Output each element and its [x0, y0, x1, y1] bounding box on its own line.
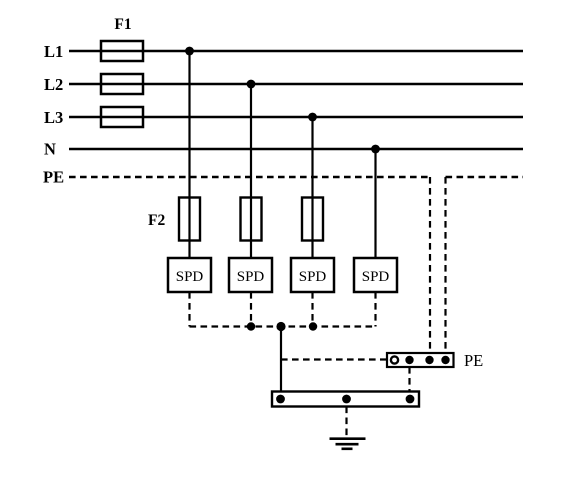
svg-text:SPD: SPD: [299, 269, 327, 285]
svg-text:F2: F2: [148, 212, 165, 229]
wire PE left segment: [69, 176, 430, 178]
wire PE terminal block to bonding bar (dashed): [408, 367, 410, 392]
ground (earth electrode symbol): [330, 439, 366, 449]
wire L1: [69, 50, 523, 52]
wire from L2 tap to fuse F2b: [250, 84, 252, 198]
wire from L1 tap to fuse F2a: [188, 51, 190, 198]
fuse F2a (L1 branch): [179, 198, 200, 241]
SPD1 (surge protective device, L1): [168, 258, 211, 292]
fuse F1 pole on L3: [101, 107, 143, 127]
wire bonding bar to earth (dashed): [345, 407, 347, 438]
wire PE left drop to PE terminal block: [429, 177, 431, 353]
wire SPD3 to earth bus (dashed): [311, 292, 313, 327]
svg-text:PE: PE: [464, 351, 483, 370]
SPD3 (surge protective device, L3): [291, 258, 334, 292]
svg-text:F1: F1: [114, 16, 131, 33]
svg-text:L3: L3: [44, 108, 63, 127]
wire PE right segment: [446, 176, 524, 178]
junction dot on L2: [247, 80, 256, 89]
fuse F2b (L2 branch): [241, 198, 262, 241]
svg-text:SPD: SPD: [237, 269, 265, 285]
SPD4 (surge protective device, N): [354, 258, 397, 292]
fuse F1 pole on L1: [101, 41, 143, 61]
junction dot on earth bus (SPD2): [247, 322, 255, 330]
junction dot on L1: [185, 47, 194, 56]
earth bus wire (dashed): [190, 325, 376, 327]
PE terminal block: [387, 353, 454, 367]
SPD2 (surge protective device, L2): [229, 258, 272, 292]
wire PE right drop to PE terminal block: [444, 177, 446, 353]
svg-text:SPD: SPD: [176, 269, 204, 285]
wire fuse F2b to SPD2: [250, 241, 252, 259]
svg-text:SPD: SPD: [362, 269, 390, 285]
svg-text:N: N: [44, 140, 56, 159]
wire SPD4 to earth bus (dashed): [374, 292, 376, 327]
svg-text:PE: PE: [43, 168, 64, 187]
svg-text:L2: L2: [44, 75, 63, 94]
wire to PE terminal block (dashed): [281, 358, 387, 360]
equipotential bonding bar: [272, 392, 419, 407]
wire L3: [69, 116, 523, 118]
junction dot on earth bus (centre): [276, 322, 285, 331]
fuse F2c (L3 branch): [302, 198, 323, 241]
wire fuse F2c to SPD3: [311, 241, 313, 259]
junction dot on earth bus (SPD3): [309, 322, 317, 330]
wire SPD2 to earth bus (dashed): [250, 292, 252, 327]
junction dot on N: [371, 145, 380, 154]
wire fuse F2a to SPD1: [188, 241, 190, 259]
earthing conductor (bus to bonding bar): [280, 327, 282, 392]
wire SPD1 to earth bus (dashed): [188, 292, 190, 327]
wire from L3 tap to fuse F2c: [311, 117, 313, 198]
wire L2: [69, 83, 523, 85]
junction dot on L3: [308, 113, 317, 122]
fuse F1 pole on L2: [101, 74, 143, 94]
wire from N tap to SPD4: [374, 149, 376, 258]
wire N: [69, 148, 523, 150]
svg-text:L1: L1: [44, 42, 63, 61]
